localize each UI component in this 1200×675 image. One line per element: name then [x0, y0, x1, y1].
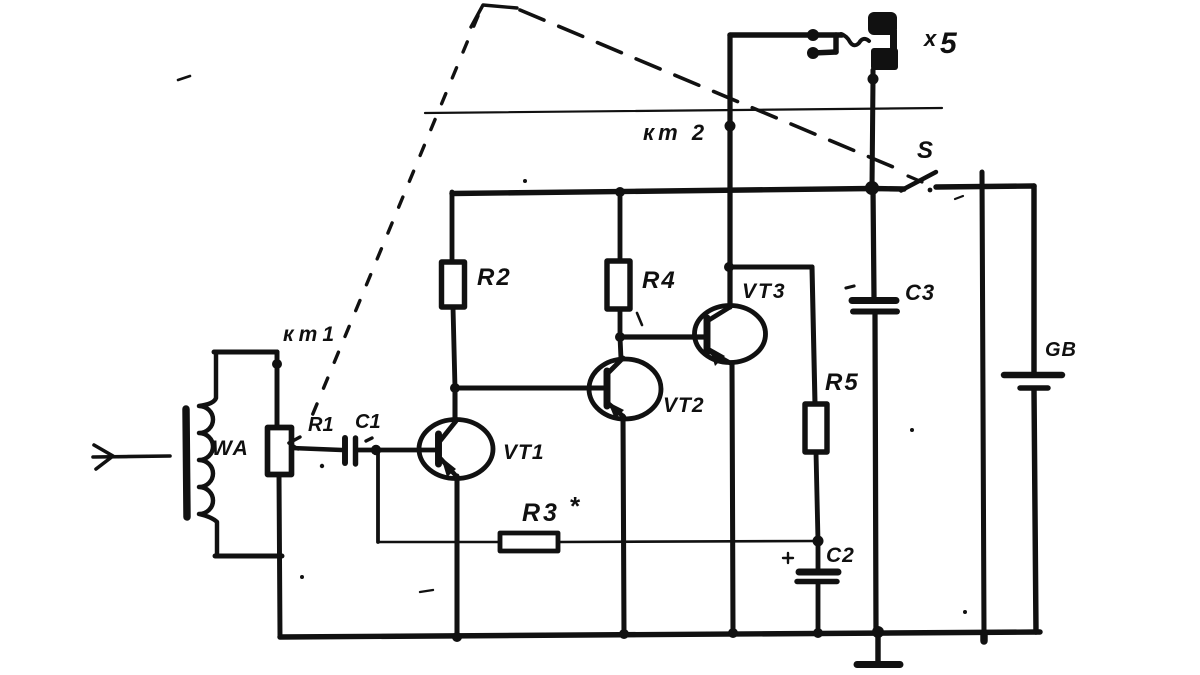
svg-text:R1: R1 [308, 414, 334, 436]
svg-text:VT3: VT3 [742, 280, 787, 303]
svg-text:кт1: кт1 [283, 323, 339, 346]
svg-text:VT1: VT1 [503, 441, 545, 464]
svg-text:R3: R3 [522, 499, 560, 527]
svg-text:R5: R5 [825, 369, 860, 396]
svg-text:S: S [917, 137, 933, 164]
svg-text:x: x [923, 26, 937, 51]
svg-text:WA: WA [212, 437, 250, 460]
svg-text:C3: C3 [905, 280, 935, 305]
svg-text:GB: GB [1045, 339, 1077, 361]
svg-text:C1: C1 [355, 411, 381, 433]
svg-text:*: * [569, 491, 581, 521]
svg-text:R2: R2 [477, 264, 512, 291]
svg-text:C2: C2 [826, 544, 855, 567]
svg-text:5: 5 [940, 27, 958, 60]
svg-text:R4: R4 [642, 267, 677, 294]
svg-text:VT2: VT2 [663, 394, 705, 417]
svg-text:кт 2: кт 2 [643, 120, 708, 145]
